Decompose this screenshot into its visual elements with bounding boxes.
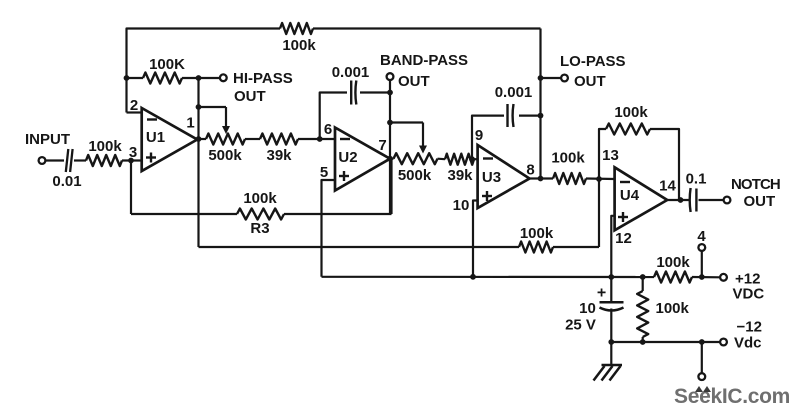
node U2 cap junction	[387, 90, 393, 96]
node divider top junction	[640, 274, 646, 280]
svg-text:39k: 39k	[266, 147, 292, 164]
potentiometer wiper arrow U2	[422, 123, 424, 148]
wire pin3 down	[130, 161, 132, 215]
op-amp U2	[335, 128, 390, 191]
svg-text:NOTCH: NOTCH	[731, 176, 780, 193]
svg-text:100k: 100k	[520, 225, 554, 242]
potentiometer wiper arrow U1	[225, 107, 227, 128]
svg-text:OUT: OUT	[744, 193, 776, 210]
resistor 100k +12 rail	[654, 272, 692, 283]
svg-text:100k: 100k	[656, 254, 690, 271]
svg-text:−12: −12	[737, 319, 762, 336]
wire 100K feedback line	[127, 77, 144, 79]
svg-text:7: 7	[378, 137, 386, 154]
wire bias rail	[322, 276, 655, 278]
capacitor 0.001 U3	[506, 104, 508, 127]
terminal -12 Vdc	[720, 339, 727, 346]
resistor 100k input	[86, 155, 122, 166]
svg-text:5: 5	[320, 164, 328, 181]
wire U2 pin5 stub	[322, 180, 336, 277]
potentiometer 500k U1	[206, 134, 245, 145]
wire U1 output chain	[197, 138, 206, 140]
svg-text:10: 10	[579, 300, 596, 317]
wire wiper2 branch	[390, 121, 423, 123]
svg-text:13: 13	[602, 147, 619, 164]
svg-text:OUT: OUT	[574, 73, 606, 90]
svg-text:100K: 100K	[149, 56, 185, 73]
terminal pin 11	[698, 373, 705, 380]
node wiper2 junction	[387, 120, 393, 126]
wire wiper1 branch	[199, 106, 227, 108]
svg-text:500k: 500k	[398, 167, 432, 184]
svg-text:SeekIC.com: SeekIC.com	[674, 385, 790, 408]
wire U4 feedback loop	[599, 129, 606, 179]
svg-text:U3: U3	[482, 169, 501, 186]
resistor 39k first	[260, 134, 298, 145]
svg-text:500k: 500k	[208, 147, 242, 164]
U1 minus sign	[147, 118, 157, 120]
terminal HI-PASS OUT	[220, 74, 227, 81]
resistor R3 100k	[237, 209, 284, 220]
resistor 100K U1 feedback	[143, 73, 182, 84]
node divider bottom junction	[640, 339, 646, 345]
svg-text:9: 9	[475, 127, 483, 144]
ground	[602, 364, 623, 367]
resistor 100k hi-pass feed	[519, 242, 553, 253]
U3 minus sign	[483, 157, 493, 159]
svg-text:HI-PASS: HI-PASS	[233, 70, 293, 87]
wire U1 pin2 stub	[127, 111, 142, 113]
wire U2 output chain	[390, 158, 394, 160]
U4 minus sign	[620, 181, 630, 183]
capacitor 0.01 input	[66, 149, 69, 172]
svg-text:14: 14	[659, 178, 676, 195]
wire U3 cap branch	[472, 116, 504, 160]
svg-text:BAND-PASS: BAND-PASS	[380, 52, 468, 69]
terminal BAND-PASS OUT	[387, 73, 394, 80]
wire R3 to U2 output	[390, 159, 392, 214]
node U3 output	[538, 176, 544, 182]
node bias cap junction	[608, 274, 614, 280]
wire pin4 down	[701, 251, 703, 277]
node pin11 junction	[699, 339, 705, 345]
svg-text:U1: U1	[146, 129, 165, 146]
terminal NOTCH OUT	[724, 197, 731, 204]
wire pin11 down	[701, 342, 703, 373]
node U4 pin13 junction	[596, 176, 602, 182]
potentiometer 500k U2	[394, 153, 438, 164]
resistor 100k divider	[637, 291, 648, 337]
capacitor 10uF electrolytic	[600, 301, 624, 304]
terminal LO-PASS OUT	[561, 75, 568, 82]
node cap ground junction	[608, 339, 614, 345]
svg-text:VDC: VDC	[733, 286, 765, 303]
wire top feedback rail	[127, 29, 281, 113]
node U3 cap junction	[538, 113, 544, 119]
capacitor 0.1 output	[688, 188, 691, 212]
node pin10 bias junction	[470, 274, 476, 280]
wire U1 output vertical	[197, 78, 199, 247]
wire -12 line	[611, 341, 720, 343]
svg-text:0.001: 0.001	[495, 84, 533, 101]
svg-text:2: 2	[130, 97, 138, 114]
svg-text:100k: 100k	[88, 138, 122, 155]
wire lo-pass vertical	[539, 29, 541, 179]
U4 plus sign	[618, 216, 628, 218]
svg-text:1: 1	[186, 115, 194, 132]
capacitor 0.001 U2	[350, 81, 352, 105]
U3 plus sign	[482, 195, 492, 197]
wire input line	[45, 159, 64, 161]
svg-text:8: 8	[526, 162, 534, 179]
wire cap top lead	[610, 277, 612, 302]
wire R3 line	[131, 213, 237, 215]
wire U3 pin10 stub	[473, 201, 478, 277]
op-amp U1	[142, 108, 198, 171]
wire cap bottom lead	[610, 309, 612, 343]
node wiper1 junction	[196, 104, 202, 110]
svg-text:OUT: OUT	[234, 88, 266, 105]
svg-text:+: +	[597, 285, 606, 302]
svg-text:10: 10	[453, 197, 470, 214]
svg-text:100k: 100k	[551, 150, 585, 167]
wire lo-pass stub	[541, 77, 562, 79]
node U1 output	[196, 136, 202, 142]
node U4 output junction	[678, 197, 684, 203]
resistor 100k U4 feedback	[606, 124, 650, 135]
node U2 pin6 junction	[317, 136, 323, 142]
op-amp U3	[478, 145, 530, 208]
svg-text:R3: R3	[250, 220, 269, 237]
node U1 inverting junction	[124, 75, 130, 81]
svg-text:39k: 39k	[447, 167, 473, 184]
svg-text:OUT: OUT	[398, 73, 430, 90]
U1 plus sign	[146, 156, 156, 158]
svg-text:0.01: 0.01	[52, 173, 81, 190]
svg-text:4: 4	[697, 228, 706, 245]
svg-text:100k: 100k	[614, 104, 648, 121]
svg-text:0.1: 0.1	[686, 171, 707, 188]
svg-text:LO-PASS: LO-PASS	[560, 53, 626, 70]
terminal INPUT	[39, 157, 46, 164]
svg-text:U2: U2	[338, 149, 357, 166]
node hi-pass junction	[196, 75, 202, 81]
wire U2 cap branch	[320, 93, 347, 140]
node U1 pin3	[128, 158, 134, 164]
wire U2 output vertical	[389, 80, 391, 214]
terminal pin 4	[698, 244, 705, 251]
resistor 39k second	[445, 154, 474, 165]
svg-text:INPUT: INPUT	[25, 131, 70, 148]
op-amp U4	[615, 167, 668, 230]
U2 minus sign	[340, 138, 350, 140]
svg-text:12: 12	[615, 230, 632, 247]
svg-text:100k: 100k	[282, 37, 316, 54]
wire U4 pin12 stub	[611, 216, 614, 277]
wire U3 output chain	[530, 177, 554, 179]
svg-text:25 V: 25 V	[565, 317, 596, 334]
svg-text:6: 6	[324, 121, 332, 138]
node LO-PASS junction	[538, 75, 544, 81]
wire notch stub	[699, 199, 724, 201]
svg-text:0.001: 0.001	[332, 64, 370, 81]
node pin4 rail junction	[699, 274, 705, 280]
svg-text:100k: 100k	[656, 300, 690, 317]
svg-text:100k: 100k	[243, 190, 277, 207]
resistor 100k U3 output	[553, 173, 586, 184]
wire ground lead	[610, 342, 612, 365]
terminal +12 VDC	[720, 274, 727, 281]
svg-text:U4: U4	[620, 187, 640, 204]
svg-text:Vdc: Vdc	[734, 335, 762, 352]
node U2 output	[387, 156, 393, 162]
wire U4 output	[667, 199, 688, 201]
resistor 100k top rail	[280, 23, 313, 34]
node U3 pin9 junction	[469, 156, 475, 162]
U2 plus sign	[339, 175, 349, 177]
wire hi-pass feed bottom	[199, 246, 520, 248]
